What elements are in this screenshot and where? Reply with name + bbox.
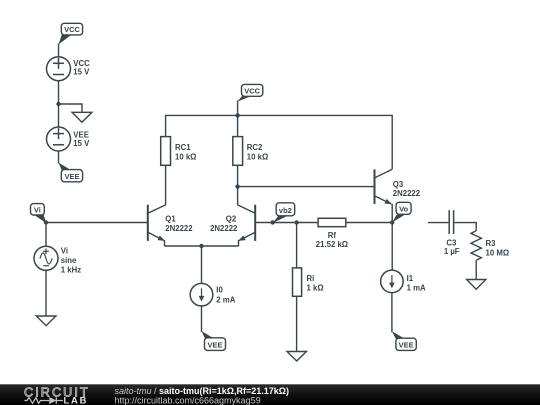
net label VEE (below I0) <box>202 331 226 350</box>
svg-text:sine: sine <box>61 256 77 265</box>
junction emitters tail node <box>199 244 203 248</box>
svg-text:R3: R3 <box>486 239 497 248</box>
wire Q2 base to Rf <box>255 222 318 224</box>
resistor RC2 10k <box>233 137 268 166</box>
resistor Rf 21.52k <box>316 218 348 249</box>
net label VEE (below V2) <box>59 163 83 182</box>
wire C3 to R3 <box>454 223 476 231</box>
ground under R3 <box>467 280 486 290</box>
svg-text:Vo: Vo <box>399 205 408 214</box>
svg-text:Q1: Q1 <box>165 214 176 223</box>
svg-text:1 mA: 1 mA <box>407 284 426 293</box>
svg-text:2N2222: 2N2222 <box>210 224 238 233</box>
wire Vi source to ground <box>45 270 47 316</box>
svg-text:15 V: 15 V <box>73 67 90 76</box>
ground under Vi <box>36 316 56 326</box>
wire RC2 top <box>237 115 239 136</box>
svg-text:RC2: RC2 <box>247 143 263 152</box>
wire VCC rail <box>166 115 393 169</box>
svg-text:15 V: 15 V <box>73 139 90 148</box>
svg-text:10 kΩ: 10 kΩ <box>175 152 196 161</box>
junction Vo node <box>390 220 394 224</box>
transistor Q1 2N2222 <box>148 205 193 246</box>
wire RC1 to Q1 collector <box>165 165 167 205</box>
wire Rf to Vo node <box>346 222 392 224</box>
wire VCC tap <box>237 101 239 116</box>
voltage source V1 VCC 15V <box>47 57 91 81</box>
net label Vi <box>31 204 47 224</box>
svg-text:VCC: VCC <box>64 25 80 34</box>
junction Ri tap <box>294 220 298 224</box>
ground under Ri <box>287 352 306 362</box>
wire VCC label to V1 <box>58 44 60 57</box>
svg-text:Vi: Vi <box>61 246 68 255</box>
svg-text:1 µF: 1 µF <box>444 247 460 256</box>
svg-text:LAB: LAB <box>64 395 89 405</box>
voltage source Vi sine 1kHz <box>34 246 81 274</box>
net label VCC (top-left) <box>59 23 83 44</box>
resistor RC1 10k <box>161 137 197 166</box>
svg-text:Q3: Q3 <box>393 180 404 189</box>
wire Q1 emitter to tail node <box>165 245 202 247</box>
svg-text:VCC: VCC <box>244 87 260 96</box>
junction RC2/Q3 base node <box>235 184 239 188</box>
wire node to Q3 base <box>238 186 375 188</box>
svg-text:I0: I0 <box>216 285 223 294</box>
svg-text:Ri: Ri <box>307 274 315 283</box>
svg-text:vb2: vb2 <box>279 206 292 215</box>
wire tail node to I0 <box>201 246 203 284</box>
svg-text:2 mA: 2 mA <box>216 295 235 304</box>
svg-text:VEE: VEE <box>64 172 79 181</box>
wire I0 to VEE label <box>201 306 203 332</box>
node vb2 attach <box>270 220 274 224</box>
svg-text:http://circuitlab.com/c666agmy: http://circuitlab.com/c666agmykag59 <box>115 395 261 405</box>
current source I0 2mA <box>190 283 236 306</box>
svg-text:Rf: Rf <box>328 231 337 240</box>
wire Ri to ground <box>296 296 298 351</box>
wire Vi node down to Vi source <box>45 223 47 247</box>
wire V1 to V2 <box>58 81 60 127</box>
resistor Ri 1k <box>293 268 324 296</box>
logo zigzag and diode <box>25 397 64 404</box>
junction between V1 and V2 <box>56 102 60 106</box>
svg-text:10 MΩ: 10 MΩ <box>486 249 510 258</box>
svg-text:Q2: Q2 <box>226 214 237 223</box>
node Vi attach <box>44 220 48 224</box>
wire C3 left stub <box>428 222 449 224</box>
current source I1 1mA <box>381 270 426 293</box>
wire R3 to ground <box>475 260 477 279</box>
svg-text:Vi: Vi <box>34 205 41 214</box>
svg-text:RC1: RC1 <box>175 143 191 152</box>
transistor Q3 2N2222 <box>375 169 421 222</box>
svg-text:I1: I1 <box>407 274 414 283</box>
net label VCC (above rail) <box>238 84 263 101</box>
resistor R3 10M <box>471 231 509 260</box>
net label vb2 <box>273 203 295 223</box>
wire Ri top <box>296 223 298 268</box>
svg-text:10 kΩ: 10 kΩ <box>247 152 268 161</box>
wire Vi to Q1 base <box>46 222 148 224</box>
svg-text:1 kHz: 1 kHz <box>61 265 81 274</box>
capacitor C3 1uF <box>444 210 460 256</box>
svg-text:2N2222: 2N2222 <box>165 224 193 233</box>
wire Vo node to I1 <box>391 223 393 271</box>
wire Q2 emitter to tail node <box>202 245 239 247</box>
ground at V1/V2 junction <box>59 104 92 122</box>
voltage source V2 VEE 15V <box>47 127 91 151</box>
svg-text:1 kΩ: 1 kΩ <box>307 284 324 293</box>
wire V2 to VEE label <box>58 151 60 164</box>
junction VCC tap on rail <box>235 113 239 117</box>
wire RC2 bottom to Q2 collector <box>237 165 239 205</box>
svg-text:2N2222: 2N2222 <box>393 189 421 198</box>
net label VEE (below I1) <box>392 331 416 350</box>
svg-text:VEE: VEE <box>399 341 414 350</box>
transistor Q2 2N2222 <box>210 205 255 246</box>
svg-text:VEE: VEE <box>207 340 222 349</box>
net label Vo <box>392 202 411 222</box>
svg-text:21.52 kΩ: 21.52 kΩ <box>316 240 348 249</box>
wire I1 to VEE label <box>391 293 393 333</box>
footer bar <box>0 384 540 405</box>
